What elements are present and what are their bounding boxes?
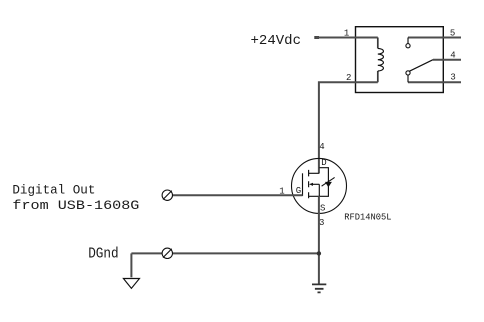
- svg-text:4: 4: [450, 51, 455, 61]
- svg-text:1: 1: [344, 29, 349, 39]
- wire gate from connector: [172, 194, 302, 196]
- svg-text:DGnd: DGnd: [88, 247, 119, 263]
- relay contact circle (pin 5 side): [406, 44, 410, 48]
- relay K1 box: [356, 27, 444, 93]
- svg-text:RFD14N05L: RFD14N05L: [344, 213, 391, 223]
- relay contact circle (pin 3 side): [406, 71, 410, 75]
- connector J2 slash: [163, 249, 172, 258]
- svg-text:3: 3: [450, 72, 455, 82]
- wire source to ground: [318, 196, 320, 284]
- connector J1 slash: [163, 191, 172, 200]
- connector J1 circle (Digital Out): [162, 190, 172, 200]
- svg-text:+24Vdc: +24Vdc: [251, 33, 302, 49]
- wire relay pin 3: [408, 81, 461, 83]
- svg-text:from USB-1608G: from USB-1608G: [12, 199, 139, 213]
- svg-text:D: D: [321, 158, 326, 168]
- wire DGnd horizontal: [131, 252, 318, 254]
- MOSFET source connector: [309, 184, 320, 196]
- wire relay pin 4: [433, 59, 461, 61]
- wire DGnd flag drop: [130, 253, 132, 277]
- MOSFET gate bar: [302, 173, 304, 196]
- wire +24Vdc endpoint tick: [314, 36, 319, 39]
- connector J2 circle (DGnd): [162, 248, 172, 258]
- wire relay pin 5: [408, 37, 461, 39]
- relay contact stub pin 5: [407, 38, 409, 44]
- ground symbol: [312, 284, 326, 292]
- svg-text:Digital Out: Digital Out: [12, 184, 95, 198]
- MOSFET body diode branch: [319, 168, 328, 197]
- wire relay pin 2 to MOSFET drain: [319, 82, 378, 173]
- relay switch arm: [409, 60, 433, 72]
- wire +24Vdc to relay pin 1: [316, 37, 378, 39]
- DGnd open triangle flag: [123, 279, 139, 289]
- MOSFET Q1 body circle: [292, 158, 347, 213]
- relay coil L between pins 1 and 2: [377, 38, 379, 83]
- MOSFET channel segments: [308, 170, 310, 198]
- MOSFET substrate arrow line: [313, 183, 320, 185]
- svg-text:S: S: [320, 204, 325, 214]
- junction dot: [317, 251, 321, 255]
- svg-text:5: 5: [450, 29, 455, 39]
- svg-text:2: 2: [346, 73, 351, 83]
- relay contact stub pin 3: [407, 75, 409, 82]
- MOSFET body diode triangle: [325, 182, 332, 187]
- svg-text:4: 4: [319, 142, 324, 152]
- MOSFET substrate arrowhead: [309, 183, 313, 186]
- MOSFET body diode slash: [322, 177, 335, 186]
- MOSFET drain connector: [309, 172, 320, 174]
